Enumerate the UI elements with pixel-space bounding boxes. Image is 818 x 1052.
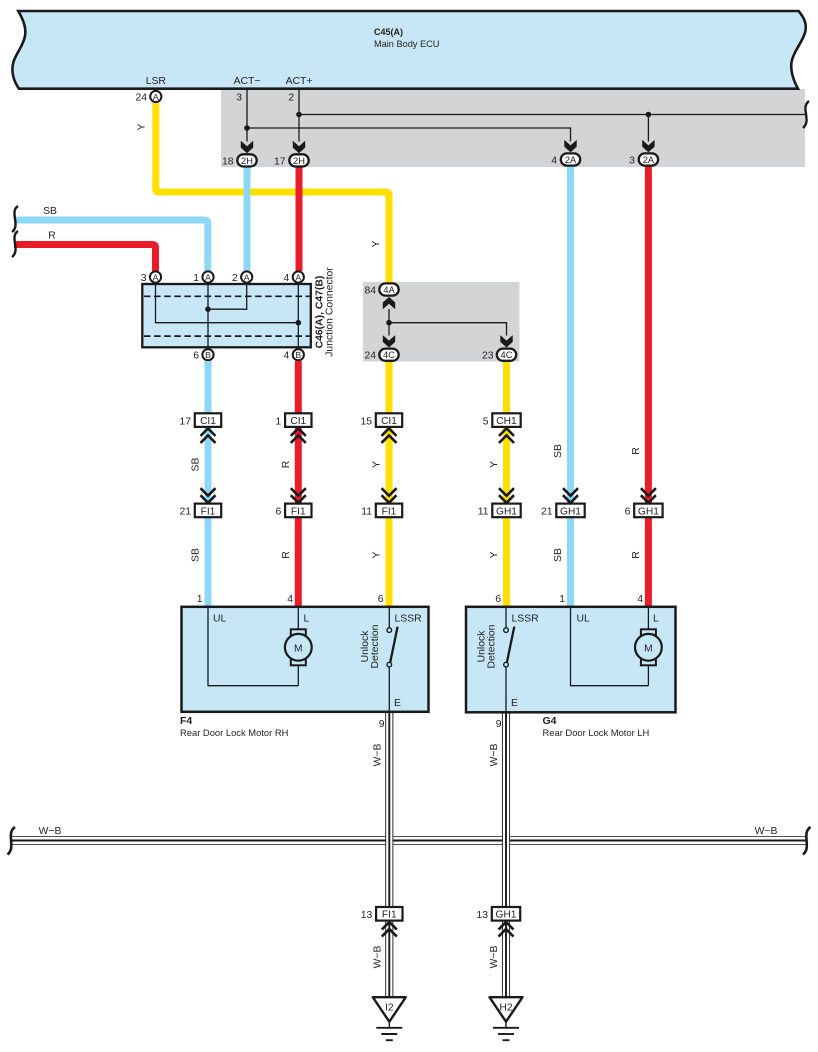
label Y col3 [372, 461, 383, 468]
label R col2 lower [281, 551, 292, 559]
svg-text:FI1: FI1 [382, 506, 397, 517]
svg-text:G4: G4 [543, 715, 557, 727]
svg-text:2: 2 [232, 273, 238, 284]
svg-text:4C: 4C [383, 350, 395, 360]
G4 internal wire motor to bottom [647, 665, 649, 685]
svg-text:SB: SB [191, 458, 202, 472]
oval 24(4C) [364, 349, 398, 362]
arrow into 23(4C) [500, 335, 512, 347]
svg-text:1: 1 [559, 594, 565, 605]
break squiggle right trunk [803, 101, 809, 128]
label Y col3 lower [372, 551, 383, 558]
svg-text:R: R [631, 447, 642, 455]
G4 internal wire UL [571, 608, 649, 686]
svg-text:Y: Y [137, 123, 148, 130]
svg-text:GH1: GH1 [560, 506, 581, 517]
chevrons above 6 FI1 [291, 488, 306, 503]
F4 designation [180, 715, 288, 738]
svg-text:A: A [153, 273, 159, 283]
svg-text:4: 4 [284, 273, 290, 284]
junction internal wire 2A branch [208, 284, 247, 309]
terminal circle 6(B) [193, 349, 213, 362]
terminal circle 4(B) [284, 349, 304, 362]
G4 motor M [635, 629, 662, 665]
svg-text:B: B [205, 350, 211, 360]
break squiggle rail left [8, 827, 16, 855]
svg-text:Junction Connector: Junction Connector [325, 267, 336, 357]
label Y col4 [489, 461, 500, 468]
svg-text:Y: Y [489, 551, 500, 558]
label Y col4 lower [489, 551, 500, 558]
svg-text:4: 4 [637, 594, 643, 605]
svg-text:A: A [295, 273, 301, 283]
svg-text:4A: 4A [383, 285, 395, 295]
svg-text:W−B: W−B [39, 826, 62, 837]
junction internal wire 3A branch [156, 284, 299, 323]
wire R from 3(2A) to G4 L [645, 166, 652, 606]
svg-text:3: 3 [141, 273, 147, 284]
svg-text:5: 5 [483, 416, 489, 427]
pin label ACT+ [286, 76, 313, 87]
chevrons below 13 GH1 [499, 922, 514, 937]
pin label LSR [146, 76, 167, 87]
wire R from 4(B) to F4 L [295, 361, 302, 606]
svg-text:9: 9 [496, 719, 502, 730]
F4 internal wire motor to bottom [297, 665, 299, 685]
svg-text:LSSR: LSSR [395, 614, 423, 625]
svg-text:ACT+: ACT+ [286, 76, 313, 87]
pin 24 terminal circle A [135, 91, 161, 104]
wire SB from 6(B) to F4 UL [205, 361, 212, 606]
wire R from left [14, 245, 156, 272]
svg-text:Rear Door Lock Motor LH: Rear Door Lock Motor LH [543, 727, 650, 738]
svg-text:6: 6 [193, 351, 199, 362]
trunk2 branch to 23(4C) [389, 323, 507, 336]
F4 internal wire UL [208, 608, 298, 686]
gray trunk box 2 [363, 282, 520, 362]
F4 motor M [285, 629, 312, 665]
svg-text:W−B: W−B [373, 946, 384, 969]
svg-text:LSSR: LSSR [512, 614, 540, 625]
F4 Rear Door Lock Motor RH box [182, 607, 429, 712]
label SB col1 lower [191, 548, 202, 562]
svg-text:SB: SB [191, 548, 202, 562]
svg-text:C45(A): C45(A) [374, 27, 403, 37]
chevrons above 6 GH1 [641, 488, 656, 503]
wire down to 3(2A) [647, 115, 649, 142]
svg-text:CI1: CI1 [200, 416, 216, 427]
svg-text:L: L [653, 614, 659, 625]
arrow into 24(4C) [383, 335, 395, 347]
svg-text:A: A [244, 273, 250, 283]
node on ACT- wire [244, 125, 250, 131]
terminal circle 1(A) [193, 271, 213, 284]
svg-text:1: 1 [193, 273, 199, 284]
svg-text:1: 1 [276, 416, 282, 427]
pin label ACT- [234, 76, 261, 87]
svg-text:ACT−: ACT− [234, 76, 261, 87]
label R col2 [281, 460, 292, 468]
terminal circle 4(A) [284, 271, 304, 284]
svg-text:3: 3 [236, 93, 242, 104]
svg-text:I2: I2 [385, 1003, 394, 1014]
G4 switch LSSR [504, 608, 515, 712]
svg-text:6: 6 [378, 594, 384, 605]
svg-text:Main Body ECU: Main Body ECU [374, 39, 439, 49]
connector 11 FI1 [361, 504, 402, 518]
svg-text:11: 11 [361, 507, 372, 518]
svg-text:CH1: CH1 [496, 416, 517, 427]
chevrons above 21 FI1 [201, 488, 216, 503]
svg-text:6: 6 [495, 594, 501, 605]
node branch to 3(2A) [646, 112, 652, 118]
ground H2 [490, 997, 523, 1040]
svg-text:FI1: FI1 [382, 910, 397, 921]
arrow into 3(2A) [642, 140, 654, 152]
label W-B F4 upper [373, 744, 384, 767]
label W-B rail right [755, 826, 778, 837]
svg-text:L: L [304, 614, 310, 625]
svg-text:E: E [511, 698, 518, 709]
chevrons below 5 CH1 [499, 428, 514, 443]
svg-text:24: 24 [364, 351, 376, 362]
svg-text:LSR: LSR [146, 76, 167, 87]
svg-text:SB: SB [553, 444, 564, 458]
svg-text:Rear Door Lock Motor RH: Rear Door Lock Motor RH [180, 727, 288, 738]
wire SB from left [14, 220, 208, 271]
svg-text:Y: Y [372, 461, 383, 468]
connector 6 FI1 [276, 504, 312, 518]
svg-text:H2: H2 [499, 1003, 512, 1014]
ground I2 [373, 997, 406, 1040]
svg-text:2H: 2H [241, 156, 253, 166]
svg-text:21: 21 [541, 507, 553, 518]
wire ACT- vertical [236, 89, 247, 142]
F4 label Unlock Detection [360, 624, 381, 668]
break squiggle R left [12, 231, 18, 257]
svg-text:R: R [48, 231, 56, 242]
connector 17 CI1 [179, 413, 221, 427]
chevrons above 11 GH1 [499, 488, 514, 503]
svg-text:24: 24 [135, 93, 147, 104]
svg-text:3: 3 [629, 155, 635, 166]
svg-text:GH1: GH1 [496, 910, 517, 921]
svg-text:A: A [205, 273, 211, 283]
node junction 1A-2A [205, 306, 211, 312]
pin 6 F4 [378, 594, 384, 605]
connector 13 GH1 [476, 907, 520, 921]
wire Y from 23(4C) to G4 LSSR [503, 361, 510, 606]
wire Y from pin 24 [156, 103, 389, 283]
svg-text:21: 21 [179, 507, 191, 518]
wire Y from 24(4C) to F4 LSSR [386, 361, 393, 606]
svg-text:R: R [281, 551, 292, 559]
arrow into 18(2H) [241, 141, 253, 153]
pin 9 F4 [379, 719, 385, 730]
label SB col1 [191, 458, 202, 472]
label W-B G4 lower [489, 946, 500, 969]
arrow into 17(2H) [293, 141, 305, 153]
label W-B F4 lower [373, 946, 384, 969]
oval 84(4A) [364, 283, 398, 296]
svg-text:2H: 2H [293, 156, 305, 166]
wire W-B F4 to ground [386, 712, 394, 997]
svg-text:GH1: GH1 [496, 506, 517, 517]
connector 13 FI1 [361, 907, 403, 921]
label W-B rail left [39, 826, 62, 837]
G4 label Unlock Detection [477, 624, 498, 668]
chevrons below 15 CI1 [382, 428, 397, 443]
connector 1 CI1 [276, 413, 312, 427]
svg-text:Y: Y [371, 240, 382, 247]
svg-text:2A: 2A [643, 155, 655, 165]
svg-text:B: B [295, 350, 301, 360]
junction internal wire 1A-6B [207, 284, 209, 347]
svg-text:F4: F4 [180, 715, 192, 727]
svg-text:M: M [294, 644, 303, 655]
label Y left [137, 123, 148, 130]
svg-text:23: 23 [482, 351, 494, 362]
wire W-B G4 to ground [502, 712, 510, 997]
label SB col5 lower [553, 548, 564, 562]
label R col6 [631, 447, 642, 455]
svg-text:A: A [153, 92, 159, 102]
oval 3(2A) [629, 153, 658, 166]
svg-text:UL: UL [213, 614, 227, 625]
svg-text:W−B: W−B [373, 744, 384, 767]
svg-text:4: 4 [287, 594, 293, 605]
svg-text:Detection: Detection [487, 624, 498, 668]
pin 4 G4 [637, 594, 643, 605]
node on ACT+ wire [296, 112, 302, 118]
chevrons above 21 GH1 [563, 488, 578, 503]
junction connector C46(A) C47(B) box [142, 284, 310, 347]
F4 internal wire L to motor [297, 608, 299, 630]
svg-text:GH1: GH1 [638, 506, 659, 517]
svg-text:SB: SB [43, 206, 57, 217]
arrow up into 84(4A) [383, 297, 395, 309]
break squiggle rail right [803, 827, 811, 855]
svg-text:9: 9 [379, 719, 385, 730]
ECU banner C45(A) [12, 11, 805, 89]
ground rail W-B [12, 837, 806, 845]
wire SB from 18(2H) to 2(A) [244, 167, 251, 271]
svg-text:6: 6 [625, 507, 631, 518]
gray trunk box 1 [221, 89, 805, 167]
F4 switch LSSR [387, 608, 398, 712]
chevrons below 1 CI1 [291, 428, 306, 443]
svg-text:W−B: W−B [489, 946, 500, 969]
connector 11 GH1 [478, 504, 521, 518]
chevrons above 11 FI1 [382, 488, 397, 503]
chevrons below 17 CI1 [201, 428, 216, 443]
label Y mid [371, 240, 382, 247]
connector 21 FI1 [179, 504, 221, 518]
terminal circle 2(A) [232, 271, 252, 284]
label W-B G4 upper [489, 744, 500, 767]
svg-text:FI1: FI1 [291, 506, 306, 517]
svg-text:11: 11 [478, 507, 489, 518]
pin 1 F4 [197, 594, 203, 605]
node junction 3A-4A [296, 320, 302, 326]
svg-text:W−B: W−B [489, 744, 500, 767]
svg-text:13: 13 [361, 910, 373, 921]
G4 Rear Door Lock Motor LH box [466, 607, 676, 713]
junction label Junction Connector [325, 267, 336, 357]
trunk2 wire vertical [388, 309, 390, 336]
oval 18(2H) [222, 154, 257, 167]
node trunk2 [386, 320, 392, 326]
pin 4 F4 [287, 594, 293, 605]
svg-text:15: 15 [360, 416, 372, 427]
svg-text:13: 13 [476, 910, 488, 921]
oval 23(4C) [482, 349, 516, 362]
G4 internal wire L to motor [647, 608, 649, 630]
svg-text:CI1: CI1 [381, 416, 397, 427]
wire ACT+ vertical [288, 89, 299, 142]
pin 6 G4 [495, 594, 501, 605]
pin 1 G4 [559, 594, 565, 605]
chevrons below 13 FI1 [382, 922, 397, 937]
G4 designation [543, 715, 650, 738]
svg-text:17: 17 [179, 416, 191, 427]
break squiggle SB left [12, 206, 18, 232]
wire R from 17(2H) to 4(A) [296, 167, 303, 271]
wire ACT+ branch to right [299, 114, 805, 116]
label SB col5 [553, 444, 564, 458]
arrow into 4(2A) [564, 140, 576, 152]
svg-text:6: 6 [276, 507, 282, 518]
svg-text:Detection: Detection [370, 624, 381, 668]
svg-text:M: M [644, 644, 653, 655]
connector 15 CI1 [360, 413, 402, 427]
svg-text:84: 84 [364, 285, 376, 296]
svg-text:R: R [631, 551, 642, 559]
svg-text:1: 1 [197, 594, 203, 605]
svg-text:R: R [281, 460, 292, 468]
wire ACT- branch to 4(2A) [247, 128, 571, 142]
label R left [48, 231, 56, 242]
svg-text:4: 4 [284, 351, 290, 362]
svg-text:E: E [394, 698, 401, 709]
svg-text:FI1: FI1 [201, 506, 216, 517]
terminal circle 3(A) [141, 271, 161, 284]
connector 5 CH1 [483, 413, 521, 427]
svg-text:4: 4 [551, 155, 557, 166]
svg-text:CI1: CI1 [290, 416, 306, 427]
label R col6 lower [631, 551, 642, 559]
svg-text:4C: 4C [501, 350, 513, 360]
oval 4(2A) [551, 153, 580, 166]
svg-text:Y: Y [372, 551, 383, 558]
connector 6 GH1 [625, 504, 663, 518]
label SB left [43, 206, 57, 217]
svg-text:UL: UL [577, 614, 591, 625]
svg-text:SB: SB [553, 548, 564, 562]
wire SB from 4(2A) to G4 UL [567, 166, 574, 606]
oval 17(2H) [274, 154, 309, 167]
svg-text:2: 2 [288, 93, 294, 104]
svg-text:17: 17 [274, 156, 286, 167]
svg-text:18: 18 [222, 156, 234, 167]
connector 21 GH1 [541, 504, 585, 518]
svg-text:W−B: W−B [755, 826, 778, 837]
junction internal wire 4A-4B [297, 284, 299, 347]
svg-text:Y: Y [489, 461, 500, 468]
junction label C46(A), C47(B) [315, 276, 326, 349]
pin 9 G4 [496, 719, 502, 730]
svg-text:2A: 2A [565, 155, 577, 165]
